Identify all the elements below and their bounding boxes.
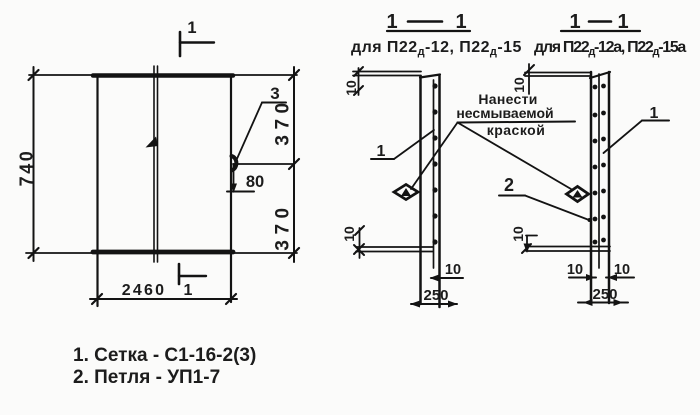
svg-text:1: 1 <box>569 11 580 33</box>
svg-text:2: 2 <box>504 175 514 195</box>
svg-text:1: 1 <box>386 11 397 33</box>
svg-text:10: 10 <box>343 80 359 96</box>
svg-text:1: 1 <box>455 11 466 33</box>
svg-text:краской: краской <box>487 122 546 138</box>
svg-text:370: 370 <box>273 202 294 250</box>
svg-text:1. Сетка - С1-16-2(3): 1. Сетка - С1-16-2(3) <box>73 345 256 366</box>
svg-text:250: 250 <box>423 287 448 304</box>
svg-text:1: 1 <box>617 11 628 33</box>
svg-text:2. Петля - УП1-7: 2. Петля - УП1-7 <box>73 367 220 388</box>
svg-text:370: 370 <box>273 97 294 145</box>
svg-text:несмываемой: несмываемой <box>456 105 553 121</box>
svg-text:1: 1 <box>187 19 196 37</box>
svg-text:740: 740 <box>17 149 37 187</box>
svg-text:10: 10 <box>510 226 526 242</box>
svg-text:1: 1 <box>377 143 386 160</box>
svg-text:10: 10 <box>567 262 583 278</box>
svg-text:10: 10 <box>445 262 461 278</box>
svg-text:10: 10 <box>614 262 630 278</box>
svg-text:250: 250 <box>592 286 617 303</box>
svg-text:1: 1 <box>650 105 659 122</box>
svg-text:10: 10 <box>341 226 357 242</box>
svg-text:3: 3 <box>270 84 279 103</box>
svg-text:1: 1 <box>184 282 193 299</box>
svg-text:2460: 2460 <box>122 282 166 299</box>
svg-text:80: 80 <box>246 173 264 191</box>
svg-text:для П22д-12а, П22д-15а: для П22д-12а, П22д-15а <box>534 39 686 58</box>
